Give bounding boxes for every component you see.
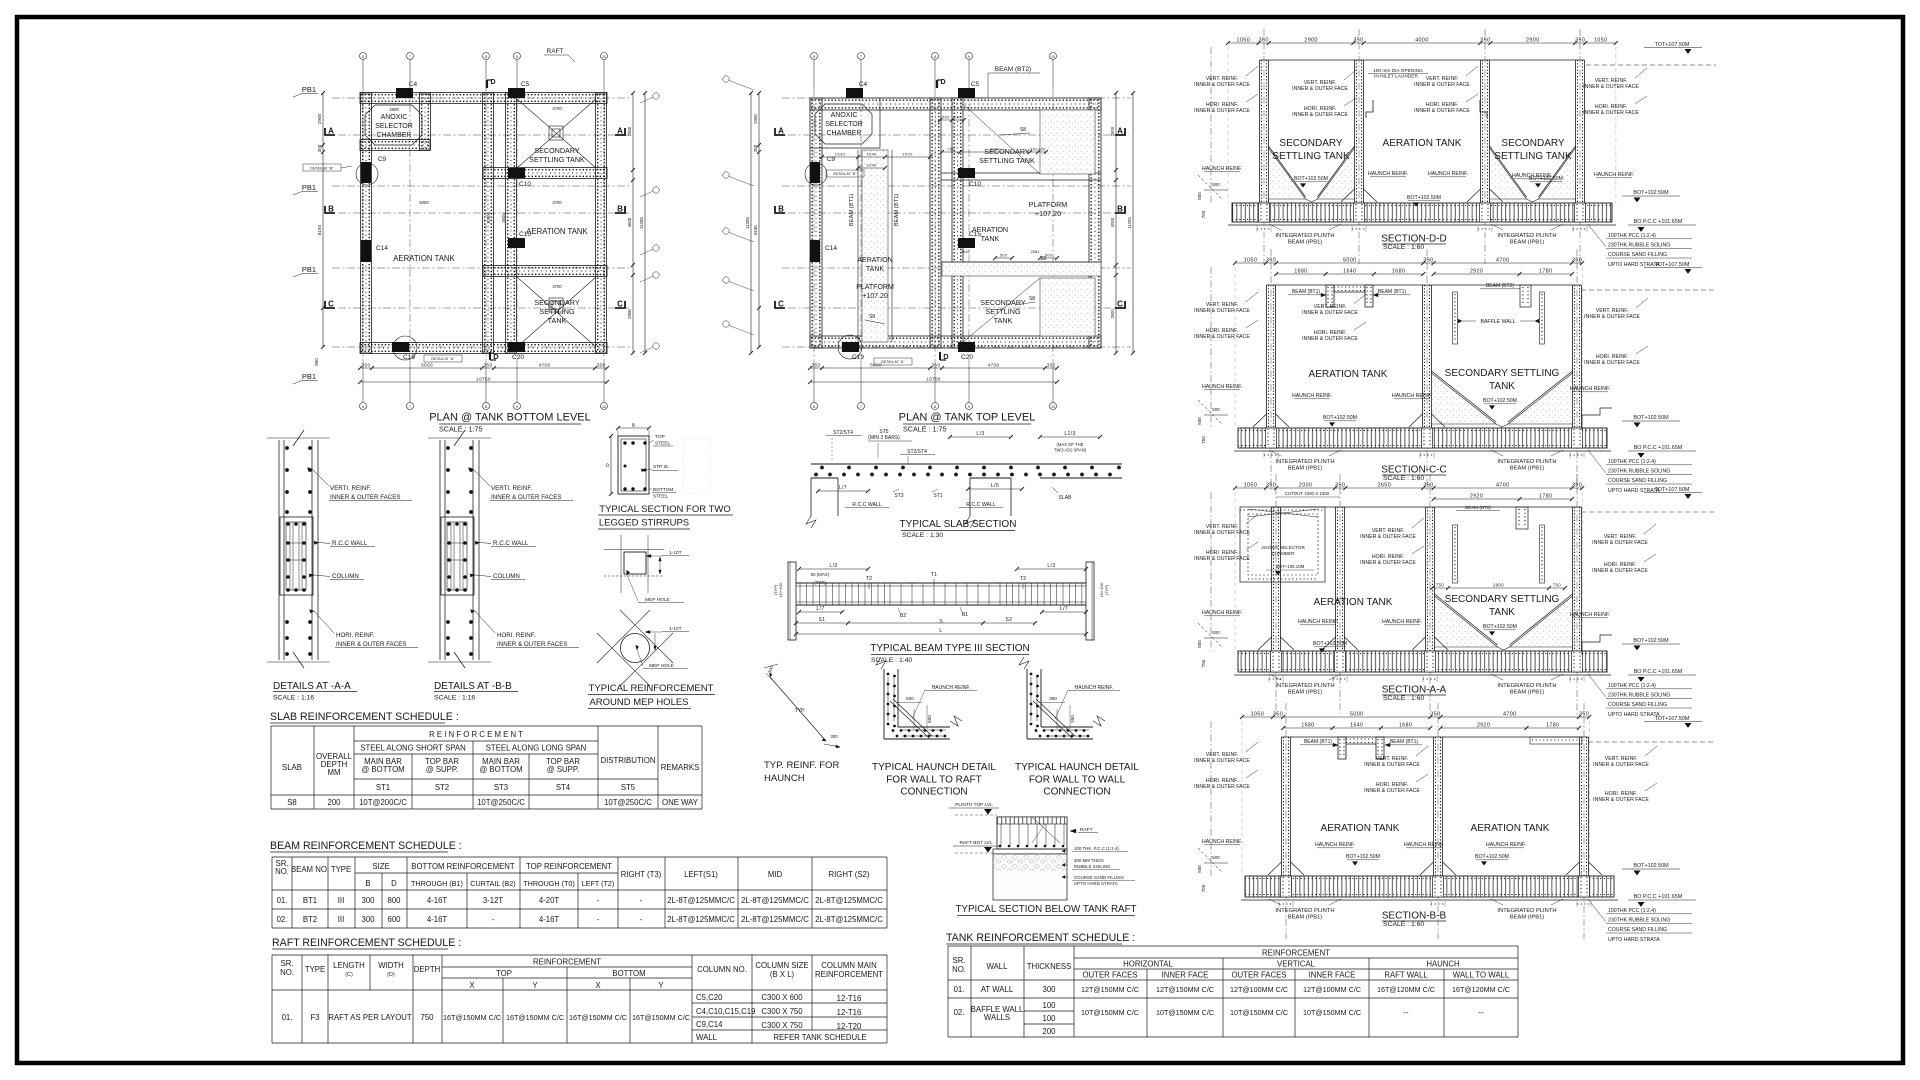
svg-text:MEP HOLE: MEP HOLE — [645, 597, 670, 603]
svg-text:1640: 1640 — [1350, 723, 1363, 729]
svg-text:12-T16: 12-T16 — [837, 1008, 862, 1017]
svg-text:2900: 2900 — [1110, 126, 1115, 136]
svg-text:350: 350 — [1430, 712, 1440, 718]
section B-B — [1285, 703, 1287, 939]
outer walls plan2 (stippled) — [810, 98, 1101, 110]
haunches — [1281, 637, 1295, 650]
svg-text:BOT+102.50M: BOT+102.50M — [1323, 415, 1357, 421]
svg-text:1050: 1050 — [1251, 712, 1265, 718]
svg-text:WALL: WALL — [696, 1033, 718, 1042]
svg-text:LENGTH: LENGTH — [333, 961, 365, 970]
svg-text:SECTION-B-B: SECTION-B-B — [1382, 911, 1447, 922]
svg-text:INNER FACE: INNER FACE — [1309, 971, 1356, 980]
svg-text:SETTLING TANK: SETTLING TANK — [1494, 151, 1572, 162]
svg-text:IN INLET LAUNDER: IN INLET LAUNDER — [1374, 74, 1418, 80]
svg-text:INNER & OUTER FACE: INNER & OUTER FACE — [1584, 360, 1640, 366]
svg-text:INNER & OUTER FACES: INNER & OUTER FACES — [330, 494, 400, 501]
svg-text:NO.: NO. — [280, 968, 294, 977]
svg-text:4000: 4000 — [1110, 217, 1115, 227]
svg-text:--: -- — [1478, 1008, 1484, 1017]
svg-text:SCALE : 1:60: SCALE : 1:60 — [1383, 244, 1424, 251]
svg-text:SR.: SR. — [281, 959, 294, 968]
haunch detail 350 — [1026, 669, 1028, 739]
svg-text:HAUNCH REINF.: HAUNCH REINF. — [1292, 393, 1332, 399]
svg-text:DETAIL AT "A": DETAIL AT "A" — [431, 357, 455, 361]
svg-text:RIGHT (S2): RIGHT (S2) — [828, 870, 869, 879]
svg-text:1050: 1050 — [1244, 483, 1258, 489]
svg-text:8150: 8150 — [753, 225, 758, 235]
top right slab stub BB — [1530, 737, 1582, 744]
svg-text:INNER & OUTER FACE: INNER & OUTER FACE — [1194, 556, 1250, 562]
svg-text:C5,C20: C5,C20 — [696, 993, 723, 1002]
svg-text:SELECTOR: SELECTOR — [825, 121, 863, 128]
svg-text:350: 350 — [597, 363, 606, 368]
svg-text:BEAM (BT1): BEAM (BT1) — [1390, 739, 1418, 745]
svg-text:TYP. REINF. FOR: TYP. REINF. FOR — [764, 760, 839, 771]
tank walls — [1281, 737, 1283, 876]
svg-text:-: - — [597, 896, 600, 905]
svg-text:@ SUPP.: @ SUPP. — [426, 765, 458, 774]
svg-text:8: 8 — [485, 55, 487, 59]
svg-text:1050: 1050 — [1237, 38, 1251, 44]
svg-text:X: X — [469, 981, 475, 990]
svg-text:3-12T: 3-12T — [483, 896, 504, 905]
svg-text:INNER & OUTER FACE: INNER & OUTER FACE — [1194, 334, 1250, 340]
svg-text:DEPTH: DEPTH — [414, 965, 440, 974]
svg-text:Y: Y — [658, 981, 664, 990]
svg-text:TYPICAL REINFORCEMENT: TYPICAL REINFORCEMENT — [589, 683, 714, 694]
svg-text:1020: 1020 — [902, 152, 913, 157]
svg-text:600: 600 — [387, 915, 401, 924]
svg-text:CHAMBER: CHAMBER — [376, 132, 411, 139]
MEP hole circle detail — [620, 610, 673, 663]
svg-text:C: C — [778, 300, 784, 309]
svg-text:750: 750 — [1201, 884, 1206, 892]
svg-text:1-10T: 1-10T — [669, 550, 682, 556]
tank walls — [1259, 60, 1261, 203]
svg-text:6: 6 — [362, 405, 364, 409]
svg-text:@ SUPP.: @ SUPP. — [547, 765, 579, 774]
svg-text:SETTLING TANK: SETTLING TANK — [529, 155, 585, 164]
svg-text:C4: C4 — [859, 81, 868, 88]
svg-text:SECONDARY: SECONDARY — [1279, 138, 1342, 149]
svg-text:INNER & OUTER FACES: INNER & OUTER FACES — [497, 641, 567, 648]
svg-text:C4: C4 — [409, 81, 418, 88]
svg-text:TYPE: TYPE — [331, 865, 351, 874]
hopper slopes — [1432, 373, 1497, 424]
svg-text:HAUNCH REINF.: HAUNCH REINF. — [1428, 171, 1468, 177]
svg-text:C10: C10 — [969, 181, 981, 188]
svg-text:10: 10 — [1051, 55, 1055, 59]
svg-text:BEAM (IPB1): BEAM (IPB1) — [1510, 466, 1545, 472]
svg-text:2900: 2900 — [627, 309, 632, 319]
svg-text:500: 500 — [1045, 254, 1053, 258]
haunches — [1364, 189, 1378, 202]
svg-text:INTEGRATED PLINTH: INTEGRATED PLINTH — [1275, 908, 1334, 914]
svg-text:C: C — [328, 300, 334, 309]
svg-text:(TYP): (TYP) — [814, 580, 826, 585]
svg-text:L/3: L/3 — [976, 431, 984, 437]
svg-text:2L-8T@125MMC/C: 2L-8T@125MMC/C — [815, 896, 883, 905]
svg-text:500: 500 — [1197, 865, 1202, 873]
svg-text:SECONDARY SETTLING: SECONDARY SETTLING — [1445, 368, 1560, 379]
svg-text:350: 350 — [1572, 483, 1582, 489]
svg-text:HAUNCH REINF.: HAUNCH REINF. — [932, 685, 971, 691]
svg-text:1050: 1050 — [1594, 38, 1608, 44]
svg-text:PB1: PB1 — [302, 372, 316, 381]
svg-text:BOTTOM: BOTTOM — [612, 969, 645, 978]
svg-text:230THK.RUBBLE SOLING: 230THK.RUBBLE SOLING — [1608, 918, 1670, 924]
pcc and soling — [993, 849, 1067, 854]
section D-D — [1263, 29, 1265, 264]
svg-text:-: - — [492, 915, 495, 924]
svg-text:SETTLING TANK: SETTLING TANK — [979, 156, 1035, 165]
svg-text:HAUNCH REINF.: HAUNCH REINF. — [1202, 610, 1242, 616]
svg-text:2000: 2000 — [1299, 483, 1313, 489]
beam stubs — [1338, 737, 1346, 759]
svg-text:1530: 1530 — [835, 152, 846, 157]
svg-text:SCALE : 1:60: SCALE : 1:60 — [1383, 921, 1424, 928]
ghost dashed rect — [683, 438, 710, 493]
svg-text:4700: 4700 — [1503, 712, 1517, 718]
svg-text:TOP: TOP — [496, 969, 512, 978]
svg-text:AERATION TANK: AERATION TANK — [1471, 823, 1550, 834]
svg-text:BAFFLE WALL: BAFFLE WALL — [1481, 319, 1516, 325]
section marker D bottom plan2 — [939, 352, 941, 360]
svg-text:230THK.RUBBLE SOLING: 230THK.RUBBLE SOLING — [1608, 243, 1670, 249]
svg-text:PB1: PB1 — [302, 85, 316, 94]
svg-text:C5: C5 — [521, 81, 530, 88]
svg-text:RAFT AS PER LAYOUT: RAFT AS PER LAYOUT — [328, 1013, 412, 1022]
svg-text:950: 950 — [314, 358, 319, 366]
svg-text:100THK PCC (1:2.4): 100THK PCC (1:2.4) — [1608, 233, 1656, 239]
svg-text:SLAB: SLAB — [282, 763, 302, 772]
svg-text:DETAIL AT "B": DETAIL AT "B" — [833, 172, 857, 176]
svg-text:100: 100 — [1042, 1001, 1056, 1010]
svg-text:SETTLING: SETTLING — [985, 307, 1021, 316]
section markers A B C — [775, 128, 785, 135]
svg-text:B: B — [778, 205, 784, 214]
svg-text:BEAM (IPB1): BEAM (IPB1) — [1288, 690, 1323, 696]
svg-text:SECONDARY: SECONDARY — [534, 146, 580, 155]
svg-text:COLUMN: COLUMN — [332, 573, 359, 580]
svg-text:300: 300 — [361, 915, 375, 924]
svg-text:C15: C15 — [969, 231, 981, 238]
X brace top of cutout — [1248, 509, 1318, 517]
svg-text:50 (MAX): 50 (MAX) — [811, 572, 830, 577]
haunch detail 500 — [883, 669, 885, 739]
svg-text:16T@150MM C/C: 16T@150MM C/C — [632, 1013, 690, 1022]
svg-text:@ BOTTOM: @ BOTTOM — [361, 765, 404, 774]
svg-text:300: 300 — [1030, 148, 1038, 152]
svg-text:TOT+107.50M: TOT+107.50M — [1655, 716, 1690, 722]
svg-text:1050: 1050 — [1244, 258, 1258, 264]
svg-text:BOT+105.10M: BOT+105.10M — [1276, 564, 1305, 569]
svg-text:PLAN @ TANK BOTTOM LEVEL: PLAN @ TANK BOTTOM LEVEL — [429, 412, 591, 424]
svg-text:INNER & OUTER FACE: INNER & OUTER FACE — [1414, 82, 1470, 88]
column C20 — [508, 342, 525, 352]
two legged stirrup detail — [618, 436, 649, 494]
beam reinforcement schedule table — [272, 856, 887, 858]
svg-text:B: B — [1117, 205, 1123, 214]
svg-text:4700: 4700 — [552, 106, 562, 111]
svg-text:12-T16: 12-T16 — [837, 994, 862, 1003]
svg-text:11200: 11200 — [639, 217, 644, 229]
svg-text:16T@120MM C/C: 16T@120MM C/C — [1377, 985, 1435, 994]
svg-text:1680: 1680 — [1399, 723, 1412, 729]
svg-text:HAUNCH: HAUNCH — [764, 773, 805, 784]
svg-text:RAFT BOT LVL: RAFT BOT LVL — [959, 840, 992, 846]
svg-text:+107.20: +107.20 — [862, 293, 888, 300]
svg-text:4-16T: 4-16T — [539, 915, 560, 924]
svg-text:4-16T: 4-16T — [427, 896, 448, 905]
svg-text:INNER & OUTER FACE: INNER & OUTER FACE — [1364, 762, 1420, 768]
central double wall plan2 — [930, 98, 941, 348]
svg-text:500: 500 — [1197, 192, 1202, 200]
svg-text:4700: 4700 — [552, 284, 562, 289]
svg-text:350: 350 — [1266, 258, 1276, 264]
svg-text:BT1: BT1 — [303, 896, 317, 905]
svg-text:SECONDARY: SECONDARY — [534, 298, 580, 307]
svg-text:16T@150MM C/C: 16T@150MM C/C — [506, 1013, 564, 1022]
svg-text:750: 750 — [1436, 583, 1444, 588]
svg-text:BEAM (BT1): BEAM (BT1) — [1378, 289, 1406, 295]
svg-text:2900: 2900 — [753, 114, 758, 124]
svg-text:BO P.C.C +101.65M: BO P.C.C +101.65M — [1634, 669, 1683, 675]
svg-text:AERATION: AERATION — [857, 257, 892, 264]
svg-text:L/5: L/5 — [991, 483, 999, 489]
svg-text:ST3: ST3 — [494, 783, 508, 792]
svg-text:INNER & OUTER FACE: INNER & OUTER FACE — [1584, 314, 1640, 320]
svg-text:SCALE : 1:16: SCALE : 1:16 — [273, 695, 314, 702]
svg-text:2L-8T@125MMC/C: 2L-8T@125MMC/C — [667, 915, 735, 924]
svg-text:+107.20: +107.20 — [1035, 209, 1061, 218]
svg-text:UPTO HARD STRATA: UPTO HARD STRATA — [1608, 488, 1660, 494]
svg-text:BOT+102.50M: BOT+102.50M — [1294, 176, 1328, 182]
svg-text:HAUNCH REINF.: HAUNCH REINF. — [1202, 384, 1242, 390]
grid bubbles — [360, 53, 367, 60]
hopper slopes — [1269, 148, 1306, 199]
svg-text:500: 500 — [942, 116, 950, 120]
svg-text:S8: S8 — [1020, 127, 1026, 133]
svg-text:PLATFORM: PLATFORM — [1029, 200, 1068, 209]
svg-text:1680: 1680 — [1392, 269, 1405, 275]
svg-text:BOT+102.50M: BOT+102.50M — [1483, 624, 1517, 630]
anoxic chamber plan2 — [815, 104, 872, 144]
row bubbles left of plan2 — [723, 76, 729, 82]
right dim chain plan1 — [632, 93, 634, 353]
anoxic chamber octagon — [365, 105, 422, 145]
svg-text:INTEGRATED PLINTH: INTEGRATED PLINTH — [1275, 459, 1334, 465]
svg-text:STEEL: STEEL — [655, 441, 671, 447]
svg-text:SLAB REINFORCEMENT SCHEDULE :: SLAB REINFORCEMENT SCHEDULE : — [270, 711, 459, 723]
svg-text:RAFT WALL: RAFT WALL — [1384, 971, 1428, 980]
svg-text:BEAM (BT1): BEAM (BT1) — [1304, 739, 1332, 745]
dimension chain — [1235, 487, 1582, 489]
typ reinf for haunch — [770, 677, 826, 741]
svg-text:TANK: TANK — [866, 266, 884, 273]
detail circle at C19 — [393, 336, 417, 360]
svg-text:COURSE SAND FILLING: COURSE SAND FILLING — [1608, 478, 1667, 484]
svg-text:TYPE: TYPE — [305, 965, 325, 974]
svg-text:10T@150MM C/C: 10T@150MM C/C — [1081, 1008, 1139, 1017]
svg-text:CONNECTION: CONNECTION — [1043, 787, 1110, 798]
svg-text:750: 750 — [1201, 659, 1206, 667]
svg-text:R.C.C WALL: R.C.C WALL — [493, 540, 529, 547]
svg-text:INNER & OUTER FACE: INNER & OUTER FACE — [1292, 112, 1348, 118]
svg-text:BOT+102.50M: BOT+102.50M — [1483, 398, 1517, 404]
svg-text:L/7: L/7 — [1060, 606, 1068, 612]
svg-text:2900: 2900 — [627, 126, 632, 136]
columns plan2 — [846, 88, 863, 98]
svg-text:BOT+102.50M: BOT+102.50M — [1633, 190, 1669, 196]
svg-text:C300 X 750: C300 X 750 — [761, 1007, 803, 1016]
section markers A B C — [325, 128, 335, 135]
svg-text:DETAIL AT "B": DETAIL AT "B" — [310, 167, 334, 171]
svg-text:F3: F3 — [310, 1013, 319, 1022]
svg-text:TANK: TANK — [981, 234, 1000, 243]
svg-text:III: III — [338, 896, 345, 905]
svg-text:12T@150MM C/C: 12T@150MM C/C — [1156, 985, 1214, 994]
svg-text:ST1: ST1 — [376, 783, 390, 792]
svg-text:ANOXIC: ANOXIC — [381, 114, 408, 121]
svg-text:REINFORCEMENT: REINFORCEMENT — [815, 970, 883, 979]
svg-text:TANK: TANK — [548, 316, 567, 325]
svg-text:10T@150MM C/C: 10T@150MM C/C — [1156, 1008, 1214, 1017]
svg-text:350: 350 — [1423, 483, 1433, 489]
svg-text:9: 9 — [516, 55, 518, 59]
svg-text:750: 750 — [420, 1013, 434, 1022]
svg-text:2900: 2900 — [1493, 583, 1504, 588]
svg-text:INNER & OUTER FACE: INNER & OUTER FACE — [1360, 560, 1416, 566]
svg-text:7: 7 — [860, 55, 862, 59]
svg-text:350: 350 — [317, 144, 322, 152]
svg-text:500: 500 — [1000, 254, 1008, 258]
svg-text:COURSE SAND FILLING: COURSE SAND FILLING — [1608, 252, 1667, 258]
svg-text:S8: S8 — [1029, 296, 1035, 302]
svg-text:REMARKS: REMARKS — [661, 763, 700, 772]
svg-text:SECONDARY: SECONDARY — [980, 298, 1026, 307]
baffle walls CC — [1453, 292, 1458, 344]
svg-text:PB1: PB1 — [302, 265, 316, 274]
haunches — [1291, 862, 1305, 875]
svg-text:TYPICAL HAUNCH DETAIL: TYPICAL HAUNCH DETAIL — [1015, 762, 1139, 773]
svg-text:NO.: NO. — [952, 965, 966, 974]
svg-text:INTEGRATED PLINTH: INTEGRATED PLINTH — [1497, 233, 1556, 239]
svg-text:HAUNCH REINF.: HAUNCH REINF. — [1594, 172, 1634, 178]
svg-text:500: 500 — [906, 696, 914, 701]
outer tank walls plan1 — [360, 93, 607, 104]
svg-text:100: 100 — [1042, 1014, 1056, 1023]
svg-text:-: - — [640, 915, 643, 924]
svg-text:TANK: TANK — [994, 316, 1013, 325]
svg-text:SECTION-C-C: SECTION-C-C — [1381, 465, 1447, 476]
svg-text:1040: 1040 — [866, 163, 877, 168]
svg-text:TYPICAL HAUNCH DETAIL: TYPICAL HAUNCH DETAIL — [872, 762, 996, 773]
left dims plan2 — [758, 93, 760, 347]
row bubbles right of plan1 — [653, 93, 659, 99]
svg-text:6: 6 — [813, 55, 815, 59]
svg-text:STEEL: STEEL — [653, 494, 669, 500]
svg-text:HAUNCH REINF.: HAUNCH REINF. — [1486, 842, 1526, 848]
svg-text:SELECTOR: SELECTOR — [375, 123, 413, 130]
svg-text:RAFT: RAFT — [1080, 827, 1093, 833]
svg-text:COURSE SAND FILLING: COURSE SAND FILLING — [1608, 702, 1667, 708]
svg-text:4-20T: 4-20T — [539, 896, 560, 905]
svg-text:INTEGRATED PLINTH: INTEGRATED PLINTH — [1497, 683, 1556, 689]
svg-text:4600: 4600 — [627, 217, 632, 227]
secondary settling tank top X-brace — [517, 99, 596, 168]
svg-text:BOTTOM: BOTTOM — [653, 487, 673, 493]
svg-text:OUTER FACES: OUTER FACES — [1231, 971, 1286, 980]
svg-text:INNER & OUTER FACE: INNER & OUTER FACE — [1592, 568, 1648, 574]
svg-text:INNER & OUTER FACE: INNER & OUTER FACE — [1194, 82, 1250, 88]
svg-text:L1/3: L1/3 — [1064, 431, 1075, 437]
svg-text:8150: 8150 — [317, 224, 322, 235]
svg-text:750: 750 — [1553, 583, 1561, 588]
svg-text:TOT+107.50M: TOT+107.50M — [1655, 262, 1690, 268]
bottom dimension chain — [360, 367, 607, 369]
svg-text:SCALE : 1:30: SCALE : 1:30 — [902, 532, 943, 539]
svg-text:L/3: L/3 — [1047, 563, 1055, 569]
svg-text:SETTLING TANK: SETTLING TANK — [1272, 151, 1350, 162]
svg-text:SCALE : 1:60: SCALE : 1:60 — [1383, 475, 1424, 482]
svg-text:TOT+107.50M: TOT+107.50M — [1655, 487, 1690, 493]
svg-text:350: 350 — [1070, 715, 1075, 723]
svg-text:HAUNCH REINF.: HAUNCH REINF. — [1315, 842, 1355, 848]
svg-text:C9,C14: C9,C14 — [696, 1020, 723, 1029]
svg-text:SLAB: SLAB — [1058, 495, 1072, 501]
svg-text:SIZE: SIZE — [372, 862, 389, 871]
svg-text:2920: 2920 — [1470, 494, 1483, 500]
svg-text:S2: S2 — [1006, 617, 1013, 623]
svg-text:ONE WAY: ONE WAY — [662, 798, 699, 807]
walkway hatched strip left (aeration tank top slab) — [862, 150, 888, 342]
svg-text:6: 6 — [813, 405, 815, 409]
svg-text:350: 350 — [1335, 483, 1345, 489]
svg-text:C15: C15 — [519, 231, 531, 238]
svg-text:INNER & OUTER FACE: INNER & OUTER FACE — [1302, 310, 1358, 316]
svg-text:UPTO HARD STRATA: UPTO HARD STRATA — [1074, 881, 1118, 886]
svg-text:D: D — [391, 879, 397, 888]
svg-text:ST2/ST4: ST2/ST4 — [907, 449, 927, 455]
svg-text:HAUNCH REINF.: HAUNCH REINF. — [1075, 685, 1114, 691]
svg-text:350: 350 — [1266, 483, 1276, 489]
svg-text:1-10T: 1-10T — [669, 626, 682, 632]
svg-text:RAFT REINFORCEMENT SCHEDULE :: RAFT REINFORCEMENT SCHEDULE : — [272, 937, 461, 949]
svg-text:ANOXIC SELECTOR: ANOXIC SELECTOR — [1261, 545, 1305, 550]
svg-text:ST2/ST4: ST2/ST4 — [833, 430, 853, 436]
svg-text:L: L — [939, 628, 942, 634]
svg-text:NO.: NO. — [275, 867, 289, 876]
svg-text:1680: 1680 — [1301, 723, 1314, 729]
svg-text:TYPICAL SLAB SECTION: TYPICAL SLAB SECTION — [900, 519, 1017, 530]
svg-text:1780: 1780 — [1539, 269, 1552, 275]
svg-text:4700: 4700 — [988, 363, 1000, 368]
svg-text:CHAMBER: CHAMBER — [1272, 551, 1296, 556]
svg-text:BEAM (IPB1): BEAM (IPB1) — [1510, 240, 1545, 246]
tank walls — [1266, 285, 1268, 428]
svg-text:SECTION-A-A: SECTION-A-A — [1382, 685, 1447, 696]
typical beam section — [796, 582, 1086, 584]
svg-text:01.: 01. — [282, 1013, 293, 1022]
svg-text:BOT+102.50M: BOT+102.50M — [1313, 641, 1347, 647]
svg-text:COLUMN: COLUMN — [493, 573, 520, 580]
svg-text:500: 500 — [1212, 407, 1220, 412]
svg-text:500: 500 — [1212, 630, 1220, 635]
svg-text:4700: 4700 — [539, 363, 551, 368]
svg-text:BEAM (BT2): BEAM (BT2) — [1486, 283, 1514, 289]
